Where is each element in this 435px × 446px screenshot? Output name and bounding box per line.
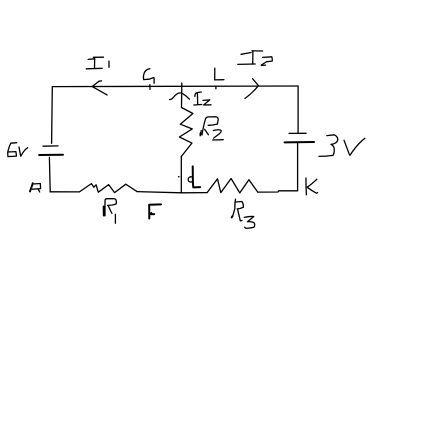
label I1 (86, 57, 109, 69)
stray dot near d (178, 176, 180, 178)
battery B2 3V top plate (289, 132, 306, 134)
resistor R3 (207, 179, 258, 193)
current arrow I2 (up) (170, 93, 190, 100)
node tick L on wire (215, 86, 217, 89)
wire bottom right (258, 191, 298, 192)
battery B1 6V bottom plate (39, 154, 63, 156)
wire left vertical lower (48, 157, 51, 191)
wire bottom middle (137, 192, 207, 193)
resistor R1 (79, 184, 137, 193)
node label A (30, 183, 33, 191)
current arrow I3 (right) on top wire (245, 79, 258, 99)
node label K (306, 178, 318, 195)
battery B1 6V top plate (43, 145, 58, 147)
node label F (149, 204, 161, 218)
wire right vertical upper (297, 86, 299, 133)
label R3 (233, 199, 244, 221)
wire top horizontal G-L (53, 85, 299, 88)
current arrow I1 (left) on top wire (92, 81, 107, 95)
label 3V (319, 135, 365, 157)
resistor R2 (179, 108, 193, 157)
node tick G on wire (149, 85, 151, 90)
node label L (215, 68, 224, 80)
wire bottom left (50, 191, 79, 193)
node label d (188, 177, 192, 182)
label R1 (105, 199, 116, 216)
wire left vertical upper (51, 87, 54, 144)
wire middle branch upper (181, 83, 183, 108)
wire right vertical lower (297, 143, 299, 191)
node label G (143, 69, 154, 84)
wire middle branch lower (180, 157, 182, 193)
label R2 (200, 117, 218, 136)
label 6V (8, 143, 28, 157)
battery B2 3V bottom plate (285, 141, 314, 143)
label I3 (238, 51, 272, 66)
label I2 (194, 92, 211, 105)
